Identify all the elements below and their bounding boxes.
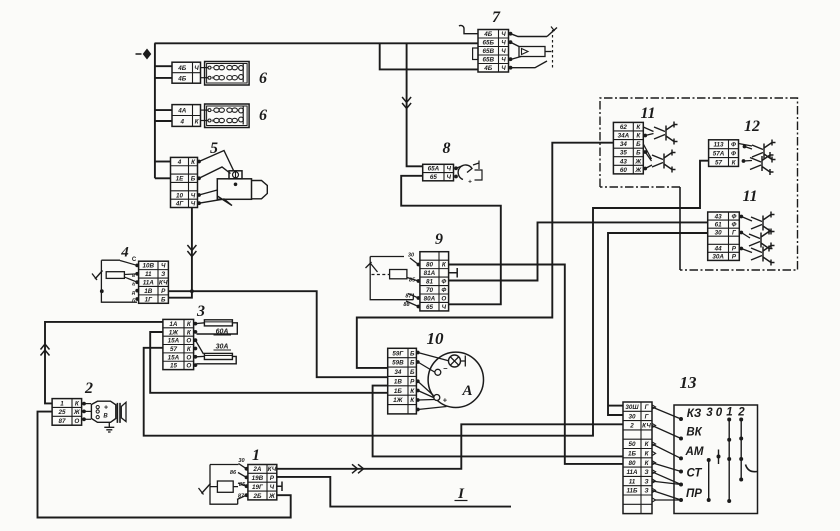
svg-text:Б: Б [410, 360, 415, 367]
svg-text:О: О [74, 418, 79, 425]
connector X6b [172, 105, 201, 127]
svg-text:З: З [644, 488, 648, 495]
svg-text:ВК: ВК [686, 427, 702, 439]
svg-text:1: 1 [60, 400, 64, 407]
svg-text:−: − [443, 364, 448, 373]
svg-text:Ж: Ж [634, 158, 642, 165]
pins of 13 [652, 405, 683, 502]
label 13 [680, 373, 698, 392]
wire net-1V 4 to 10 [168, 291, 387, 377]
svg-text:1В: 1В [144, 288, 153, 295]
svg-text:62: 62 [620, 124, 628, 131]
relay/device of 7 [459, 25, 557, 69]
wire stub to 6a pin 1 [155, 65, 172, 67]
wire net-57 3 to 12 [144, 161, 709, 436]
connector X8 [423, 164, 454, 181]
svg-text:4: 4 [177, 159, 182, 166]
horn 2 device [82, 401, 126, 432]
svg-text:30Ш: 30Ш [625, 404, 639, 411]
svg-text:ПР: ПР [686, 488, 702, 500]
svg-text:О: О [186, 363, 191, 370]
connector X1 [248, 465, 277, 500]
ignition switch 13 contact field [674, 405, 758, 514]
svg-text:11: 11 [640, 105, 655, 122]
svg-text:О: О [186, 338, 191, 345]
svg-text:11: 11 [742, 188, 757, 205]
svg-text:Ч: Ч [191, 201, 196, 208]
label 11 (lower) [742, 188, 757, 205]
svg-text:30: 30 [238, 458, 245, 464]
svg-text:30А: 30А [712, 254, 724, 261]
svg-text:Ж: Ж [73, 409, 81, 416]
svg-text:Ж: Ж [268, 493, 276, 500]
svg-text:30: 30 [408, 253, 415, 259]
svg-text:19Г: 19Г [252, 484, 264, 491]
svg-text:О: О [441, 296, 446, 303]
svg-text:81А: 81А [424, 270, 436, 277]
svg-text:Б: Б [161, 296, 166, 303]
svg-text:2А: 2А [252, 466, 262, 473]
svg-text:Ч: Ч [501, 48, 506, 55]
svg-text:Ч: Ч [194, 65, 199, 72]
svg-text:34: 34 [394, 369, 402, 376]
svg-text:+: + [443, 396, 448, 405]
svg-text:З: З [644, 469, 648, 476]
label 8 [443, 140, 451, 157]
svg-text:113: 113 [714, 142, 725, 149]
svg-text:34А: 34А [618, 133, 630, 140]
wire net-4 drop to 8 [402, 43, 423, 166]
svg-text:З: З [644, 478, 648, 485]
svg-text:11А: 11А [626, 469, 638, 476]
label 6 (upper) [259, 70, 267, 87]
label I (net marker) [455, 486, 468, 502]
capacitor stub on 1.19G [277, 482, 282, 492]
svg-text:6: 6 [259, 107, 267, 124]
wire stub to 5 pin 1E [155, 177, 171, 179]
svg-text:Ф: Ф [731, 150, 736, 157]
label 12 [744, 118, 760, 135]
svg-text:3: 3 [706, 407, 713, 419]
svg-text:60: 60 [620, 167, 628, 174]
svg-text:80: 80 [426, 262, 434, 269]
svg-text:10: 10 [176, 192, 184, 199]
svg-text:65В: 65В [482, 48, 494, 55]
svg-text:11: 11 [145, 271, 152, 278]
svg-text:4: 4 [179, 118, 184, 125]
svg-text:+: + [468, 179, 472, 186]
svg-text:1Ж: 1Ж [393, 397, 404, 404]
svg-text:1А: 1А [169, 321, 178, 328]
connector X3 [163, 319, 194, 369]
svg-text:З: З [161, 271, 165, 278]
svg-text:1: 1 [252, 447, 260, 464]
svg-text:СТ: СТ [687, 468, 703, 480]
svg-text:11А: 11А [143, 280, 155, 287]
lamps of 11 (lower) [739, 212, 774, 266]
wire stub to 5 pin 4 [155, 161, 171, 163]
svg-text:59Г: 59Г [392, 350, 404, 357]
connector X9 [420, 252, 449, 311]
wire net-4 jog to 7 pin 4B [380, 43, 478, 69]
svg-text:2Б: 2Б [252, 493, 262, 500]
svg-text:Ф: Ф [731, 221, 736, 228]
svg-text:6: 6 [259, 70, 267, 87]
svg-text:А: А [461, 383, 472, 399]
wire stub to 6b pin 2 [155, 120, 172, 122]
svg-text:7: 7 [492, 9, 501, 26]
svg-text:8: 8 [443, 140, 451, 157]
svg-text:2: 2 [629, 423, 634, 430]
wire left feed bus [154, 43, 156, 178]
svg-text:12: 12 [744, 118, 760, 135]
connector X6a [172, 62, 201, 83]
wire net-80 9 to 13 [449, 265, 623, 464]
label 5 [210, 140, 218, 157]
ammeter 10 device [416, 351, 484, 412]
svg-text:34: 34 [620, 141, 628, 148]
relay of 4 [92, 257, 139, 305]
relay of 9 [366, 253, 421, 309]
connector X4 [139, 261, 169, 303]
svg-text:Ж: Ж [634, 167, 642, 174]
wire stub to 6b pin 1 [155, 109, 172, 111]
svg-text:1В: 1В [394, 378, 403, 385]
battery feed diamond [136, 49, 152, 60]
svg-text:15А: 15А [168, 354, 180, 361]
svg-text:4: 4 [120, 245, 129, 261]
svg-text:Ч: Ч [442, 304, 447, 311]
svg-text:Ч: Ч [447, 174, 452, 181]
wire net-30 branch to 13.30Sh [608, 405, 623, 407]
wire net-65 8 to 9 [401, 176, 501, 304]
label 2 [84, 380, 93, 397]
svg-text:50: 50 [628, 441, 636, 448]
svg-text:4Г: 4Г [175, 201, 185, 208]
wire net-1G 4 stub [168, 291, 192, 298]
label 6 (lower) [259, 107, 267, 124]
svg-text:2: 2 [737, 407, 745, 419]
svg-text:КЧ: КЧ [159, 280, 168, 287]
connector X2 [52, 399, 82, 426]
fuse block 3 [194, 320, 238, 367]
svg-text:Б: Б [410, 369, 415, 376]
wire net-34 11a to 10 [357, 143, 614, 368]
connector X10 [388, 348, 417, 414]
svg-text:1Г: 1Г [145, 296, 154, 303]
svg-text:Б: Б [410, 350, 415, 357]
svg-text:Ч: Ч [501, 31, 506, 38]
wire net-4 main feed (top bus) [155, 42, 479, 44]
svg-text:80А: 80А [424, 296, 436, 303]
device of 8 [454, 161, 482, 186]
svg-text:57А: 57А [713, 150, 725, 157]
svg-text:4Б: 4Б [177, 75, 187, 82]
svg-text:4Б: 4Б [177, 65, 187, 72]
svg-text:65Б: 65Б [483, 40, 495, 47]
svg-text:9: 9 [435, 231, 443, 248]
relay of 1 [199, 458, 249, 504]
capacitor stub on 9.81A [449, 268, 458, 278]
connector X13 [623, 402, 652, 514]
label 9 [435, 231, 443, 248]
svg-text:Б: Б [636, 141, 641, 148]
wire net-2 1 to 13 [277, 424, 623, 473]
svg-text:35: 35 [620, 150, 628, 157]
svg-text:81: 81 [426, 279, 434, 286]
svg-text:61: 61 [715, 221, 723, 228]
wire net-25 2 to 1 (bottom left) [38, 412, 291, 518]
svg-text:13: 13 [680, 373, 698, 392]
svg-text:57: 57 [715, 159, 723, 166]
svg-text:О: О [186, 354, 191, 361]
svg-text:Ч: Ч [270, 484, 275, 491]
svg-text:43: 43 [619, 158, 628, 165]
svg-text:4Б: 4Б [483, 65, 493, 72]
svg-text:а: а [132, 282, 135, 288]
svg-text:57: 57 [170, 346, 178, 353]
svg-text:С: С [132, 257, 137, 263]
svg-text:Ч: Ч [161, 263, 166, 270]
wire net-1Zh 3 to 10 [150, 332, 388, 393]
headlamp 6 (upper) [201, 62, 250, 86]
svg-text:30: 30 [715, 229, 723, 236]
svg-text:КЧ: КЧ [642, 423, 651, 430]
label 11 (upper) [640, 105, 655, 122]
connector X11b [708, 212, 740, 261]
svg-text:КЗ: КЗ [687, 408, 702, 420]
svg-text:2: 2 [84, 380, 93, 397]
svg-text:В: В [103, 414, 108, 420]
wire stub to 6a pin 2 [155, 77, 172, 79]
svg-text:1Ж: 1Ж [169, 329, 180, 336]
svg-text:б: б [132, 298, 135, 305]
dashed harness boundary [600, 98, 798, 270]
connector X5 [171, 157, 198, 207]
label 4 [120, 245, 129, 261]
svg-text:65А: 65А [428, 166, 440, 173]
svg-text:1Б: 1Б [394, 388, 403, 395]
svg-text:1: 1 [726, 407, 732, 419]
svg-text:+: + [104, 405, 108, 412]
svg-text:1Е: 1Е [176, 176, 185, 183]
label 3 [196, 303, 205, 320]
lamps of 12 [739, 140, 776, 176]
svg-text:Ф: Ф [731, 213, 736, 220]
svg-text:3: 3 [196, 303, 205, 320]
svg-text:0: 0 [716, 407, 723, 419]
svg-text:11Б: 11Б [627, 488, 639, 495]
svg-text:1Б: 1Б [628, 450, 637, 457]
label 10 [427, 329, 445, 348]
svg-text:Ч: Ч [191, 192, 196, 199]
label 7 [492, 9, 501, 26]
lamps of 11 (upper) [643, 122, 677, 173]
svg-text:4Б: 4Б [483, 31, 493, 38]
svg-text:11: 11 [629, 478, 636, 485]
svg-text:65: 65 [426, 304, 434, 311]
svg-text:87: 87 [59, 418, 67, 425]
svg-text:Б: Б [191, 176, 196, 183]
svg-text:30: 30 [628, 413, 636, 420]
svg-text:Ч: Ч [501, 40, 506, 47]
wire net-I 1.19V stub [277, 477, 511, 507]
svg-text:10: 10 [427, 329, 445, 348]
connector X11a [613, 122, 643, 173]
connector X7 [478, 30, 509, 73]
wire net-1 3 to 2 [41, 322, 163, 404]
wire net-81 9 to 11b [449, 222, 708, 280]
svg-text:19В: 19В [252, 475, 264, 482]
svg-text:65: 65 [430, 174, 438, 181]
connector X12 [709, 140, 739, 167]
svg-text:65В: 65В [482, 57, 494, 64]
svg-text:Ф: Ф [731, 142, 736, 149]
wiper motor 5 device [197, 151, 267, 206]
svg-text:44: 44 [714, 246, 723, 253]
svg-text:I: I [457, 486, 465, 502]
headlamp 6 (lower) [201, 104, 250, 128]
label 1 [252, 447, 260, 464]
svg-text:АМ: АМ [685, 446, 704, 458]
svg-text:Ч: Ч [501, 57, 506, 64]
svg-text:Ч: Ч [501, 65, 506, 72]
svg-text:25: 25 [58, 409, 67, 416]
wire net-30 11b to 13 [608, 233, 708, 415]
svg-text:10В: 10В [143, 263, 155, 270]
svg-text:Ф: Ф [441, 287, 446, 294]
svg-text:80: 80 [628, 460, 636, 467]
svg-text:Ф: Ф [441, 279, 446, 286]
wire net-1B 10 to 13 [373, 386, 623, 457]
svg-text:Б: Б [636, 150, 641, 157]
svg-text:15: 15 [170, 363, 178, 370]
svg-text:70: 70 [426, 287, 434, 294]
svg-text:43: 43 [714, 213, 723, 220]
svg-text:15А: 15А [168, 338, 180, 345]
svg-text:КЧ: КЧ [268, 466, 277, 473]
svg-text:4А: 4А [177, 107, 187, 114]
svg-text:86: 86 [230, 470, 237, 476]
svg-text:Ч: Ч [447, 166, 452, 173]
svg-text:59В: 59В [392, 360, 404, 367]
wire net-1V drop from 5 [187, 207, 196, 293]
